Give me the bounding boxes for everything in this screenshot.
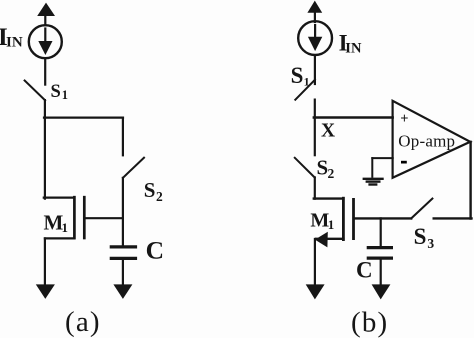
svg-text:M: M bbox=[310, 210, 329, 232]
svg-text:1: 1 bbox=[62, 88, 68, 102]
svg-text:S: S bbox=[144, 178, 156, 202]
svg-text:C: C bbox=[146, 235, 164, 264]
svg-text:S: S bbox=[317, 156, 329, 180]
svg-text:S: S bbox=[291, 63, 304, 88]
svg-text:IN: IN bbox=[6, 34, 23, 50]
svg-text:1: 1 bbox=[62, 220, 69, 235]
svg-text:2: 2 bbox=[156, 189, 163, 204]
svg-text:(a): (a) bbox=[65, 306, 101, 338]
svg-text:S: S bbox=[414, 224, 427, 249]
svg-text:3: 3 bbox=[427, 236, 434, 251]
svg-text:1: 1 bbox=[304, 74, 310, 88]
svg-text:IN: IN bbox=[345, 40, 362, 56]
svg-text:S: S bbox=[51, 82, 61, 102]
svg-text:X: X bbox=[321, 121, 335, 142]
svg-text:M: M bbox=[44, 211, 64, 235]
svg-text:+: + bbox=[400, 111, 408, 127]
svg-text:1: 1 bbox=[328, 217, 335, 232]
svg-text:Op-amp: Op-amp bbox=[398, 131, 455, 150]
svg-text:2: 2 bbox=[328, 166, 335, 181]
svg-text:(b): (b) bbox=[351, 307, 388, 338]
svg-text:C: C bbox=[356, 258, 373, 283]
